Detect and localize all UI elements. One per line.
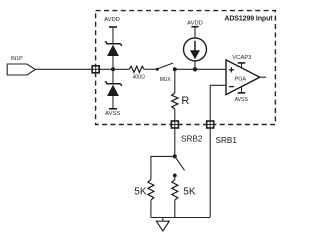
resistor R (172, 69, 190, 121)
connector square on left border (92, 66, 99, 73)
svg-text:SRB2: SRB2 (181, 134, 203, 143)
net label IN1P (input connector) (7, 56, 35, 75)
current source to AVDD (184, 38, 207, 69)
svg-text:5K: 5K (183, 187, 196, 198)
connector SRB2 square on bottom border (171, 121, 178, 128)
op-amp PGA (226, 60, 260, 95)
connector SRB1 square on bottom border (207, 121, 214, 128)
label MUX (160, 77, 172, 83)
resistor 5K left (134, 180, 154, 218)
wire PGA - input to SRB1 (210, 85, 226, 121)
wire resistor to MUX switch (144, 68, 157, 70)
power AVSS (PGA bottom) (235, 87, 249, 104)
power AVDD (current source) (187, 20, 203, 38)
node SRB2 junction (173, 154, 177, 158)
wire connector to ESD node (99, 68, 129, 70)
svg-text:AVDD: AVDD (187, 20, 203, 26)
svg-text:PGA: PGA (235, 77, 247, 83)
svg-text:MUX: MUX (160, 77, 172, 83)
svg-text:5K: 5K (134, 187, 147, 198)
svg-text:IN1P: IN1P (11, 56, 23, 62)
wire bottom rail (151, 217, 210, 219)
svg-text:SRB1: SRB1 (216, 136, 238, 145)
zener diode D1 to AVDD (105, 42, 122, 68)
wire SRB2 connector down to junction (174, 128, 176, 156)
svg-text:AVDD: AVDD (104, 17, 120, 23)
svg-text:VCAP3: VCAP3 (232, 55, 251, 61)
label SRB2 (181, 134, 203, 143)
node ESD clamp junction (111, 67, 115, 71)
svg-text:400Ω: 400Ω (132, 75, 145, 81)
wire MUX junction to PGA + input (175, 68, 227, 70)
switch MUX (156, 63, 173, 71)
svg-text:R: R (181, 95, 189, 107)
wire PGA output (260, 76, 266, 78)
switch SRB2 (open) (173, 157, 185, 177)
svg-text:AVSS: AVSS (235, 97, 249, 103)
node MUX output junction (173, 67, 177, 71)
label ADS1299 Input (224, 15, 273, 22)
svg-text:ADS1299 Input: ADS1299 Input (224, 15, 273, 22)
resistor 5K right (172, 177, 196, 218)
node below current source (193, 67, 197, 71)
svg-text:AVSS: AVSS (105, 111, 120, 117)
ground (156, 218, 169, 231)
wire input to left border connector (35, 68, 92, 70)
wire SRB1 connector down to rail (209, 128, 211, 218)
ADS1299 input boundary box (dashed) (96, 11, 276, 125)
resistor 400 ohm (129, 66, 145, 80)
power VCAP3 (PGA top) (232, 55, 251, 68)
power AVSS (left clamp) (105, 109, 120, 117)
wire junction to left 5K branch (151, 156, 175, 179)
power AVDD (left clamp) (104, 17, 120, 43)
zener diode D2 to AVSS (105, 71, 122, 109)
label SRB1 (216, 136, 238, 145)
